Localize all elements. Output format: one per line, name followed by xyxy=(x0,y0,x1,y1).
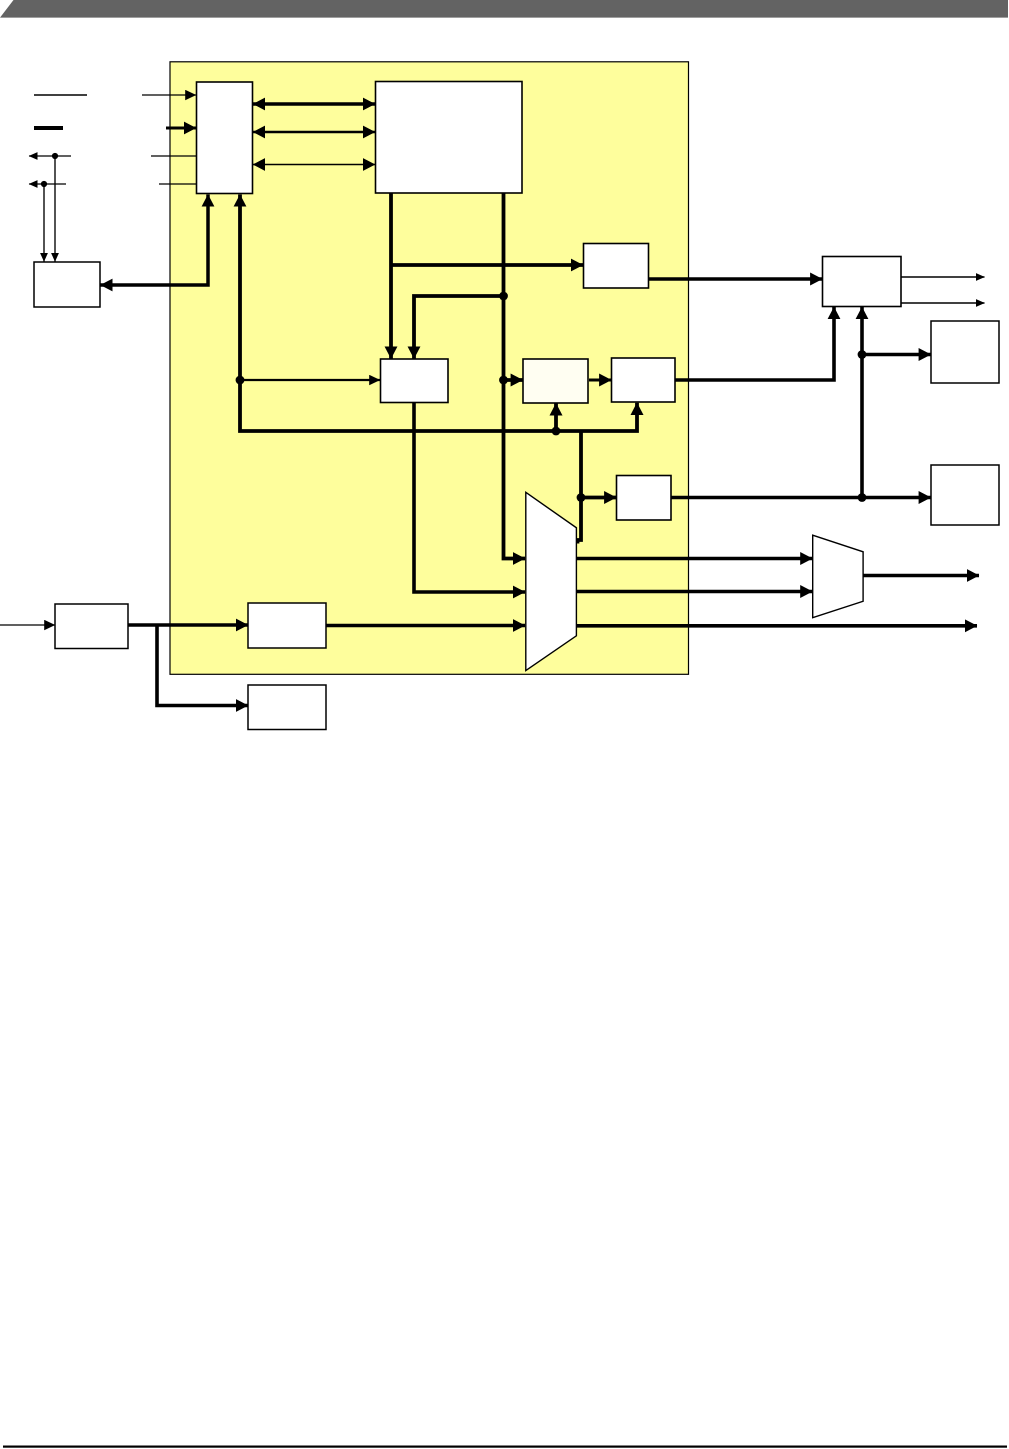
wire: pin 3 arrow left xyxy=(29,155,71,157)
wire: pin4 down to oscillator xyxy=(43,184,45,262)
box: right box K xyxy=(931,465,999,525)
wire: into divider3 box xyxy=(581,496,616,500)
box: big right output block xyxy=(823,257,902,307)
junction dot pin 4 xyxy=(41,181,47,187)
box: control/registers (large) xyxy=(376,82,523,194)
wire: big box output 2 down to mux input 1 xyxy=(504,193,526,559)
wire: input arrow 2 thick to pin-select box xyxy=(166,127,196,130)
wire: divider2 output up into big right box xyxy=(675,307,834,380)
box: gate xyxy=(584,244,649,289)
wire: bidirectional bus 2 xyxy=(253,131,375,133)
header bar xyxy=(0,0,1008,18)
wire: select drop to mux xyxy=(578,430,582,544)
junction dot rail lower xyxy=(858,493,867,502)
wire: L path to external oscillator xyxy=(101,195,209,286)
wire: box M output into mux input 3 xyxy=(326,624,525,628)
mux (small trapezoid) xyxy=(813,535,863,618)
junction dot on feedback rail xyxy=(236,376,245,385)
wire: mux output 2 to small mux xyxy=(577,590,813,594)
wire: divider to divider2 arrow xyxy=(589,379,611,382)
wire: branch left-down to filter top xyxy=(414,296,504,359)
wire: external input arrow to box L xyxy=(0,624,55,626)
box: divider (ivory) xyxy=(523,359,588,403)
wire: input line 4 to pin-select box xyxy=(159,183,196,185)
wire: big right box thin output 2 xyxy=(901,302,985,304)
wire: pin 4 arrow left xyxy=(29,183,66,185)
wire: feedback up into pin-select, down to select rail xyxy=(240,195,637,432)
junction dot pin 3 xyxy=(52,153,58,159)
wire: gate box output to big right box xyxy=(649,277,823,281)
wire: big right box thin output 1 xyxy=(901,276,985,278)
wire: divider3 output to right box K xyxy=(671,496,931,500)
wire: input line 3 to pin-select box xyxy=(151,155,196,157)
wire: branch to filter box left xyxy=(242,379,380,381)
wire: pin3 down to oscillator xyxy=(54,156,56,262)
box: external oscillator xyxy=(34,262,100,307)
mux (large trapezoid) xyxy=(526,492,577,670)
box: bottom block N xyxy=(248,685,326,730)
wire: branch to right box J xyxy=(862,353,931,357)
junction dot output2 lower xyxy=(499,376,508,385)
box: bottom-left input block L xyxy=(55,604,128,649)
wire: mux output 3 long xyxy=(577,624,978,628)
junction dot on select rail xyxy=(552,427,561,436)
wire: pin stub 1 xyxy=(34,94,87,96)
wire: vertical rail up into big right box xyxy=(860,307,864,498)
footer rule xyxy=(3,1446,1007,1448)
wire: bidirectional bus 3 xyxy=(253,164,375,166)
wire: big box output 1 down to filter xyxy=(389,193,393,359)
wire: filter output down to mux input 2 xyxy=(414,403,525,593)
wire: input arrow 1 to pin-select box xyxy=(142,94,196,96)
wire: pin stub 2 (thick) xyxy=(34,126,63,130)
module boundary (yellow block) xyxy=(170,62,689,675)
box: divider 3 xyxy=(617,476,672,521)
wire: up stub into divider box xyxy=(554,403,558,431)
wire: mux output 1 to small mux xyxy=(577,557,813,561)
junction dot select drop xyxy=(577,493,586,502)
wire: box L output to box M xyxy=(128,623,248,627)
box: right box J xyxy=(931,321,999,383)
box: filter xyxy=(381,359,449,403)
junction dot rail upper xyxy=(858,350,867,359)
box: pin-select (tall) xyxy=(197,82,253,194)
box: divider 2 xyxy=(612,358,676,402)
box: bottom block M xyxy=(248,603,326,648)
wire: bidirectional bus 1 xyxy=(253,102,375,106)
wire: branch down to box N xyxy=(157,625,248,706)
junction dot output2 upper xyxy=(499,292,508,301)
wire: branch right to gate box xyxy=(391,263,583,267)
wire: branch right into divider xyxy=(504,378,523,382)
wire: small mux output xyxy=(864,574,980,578)
